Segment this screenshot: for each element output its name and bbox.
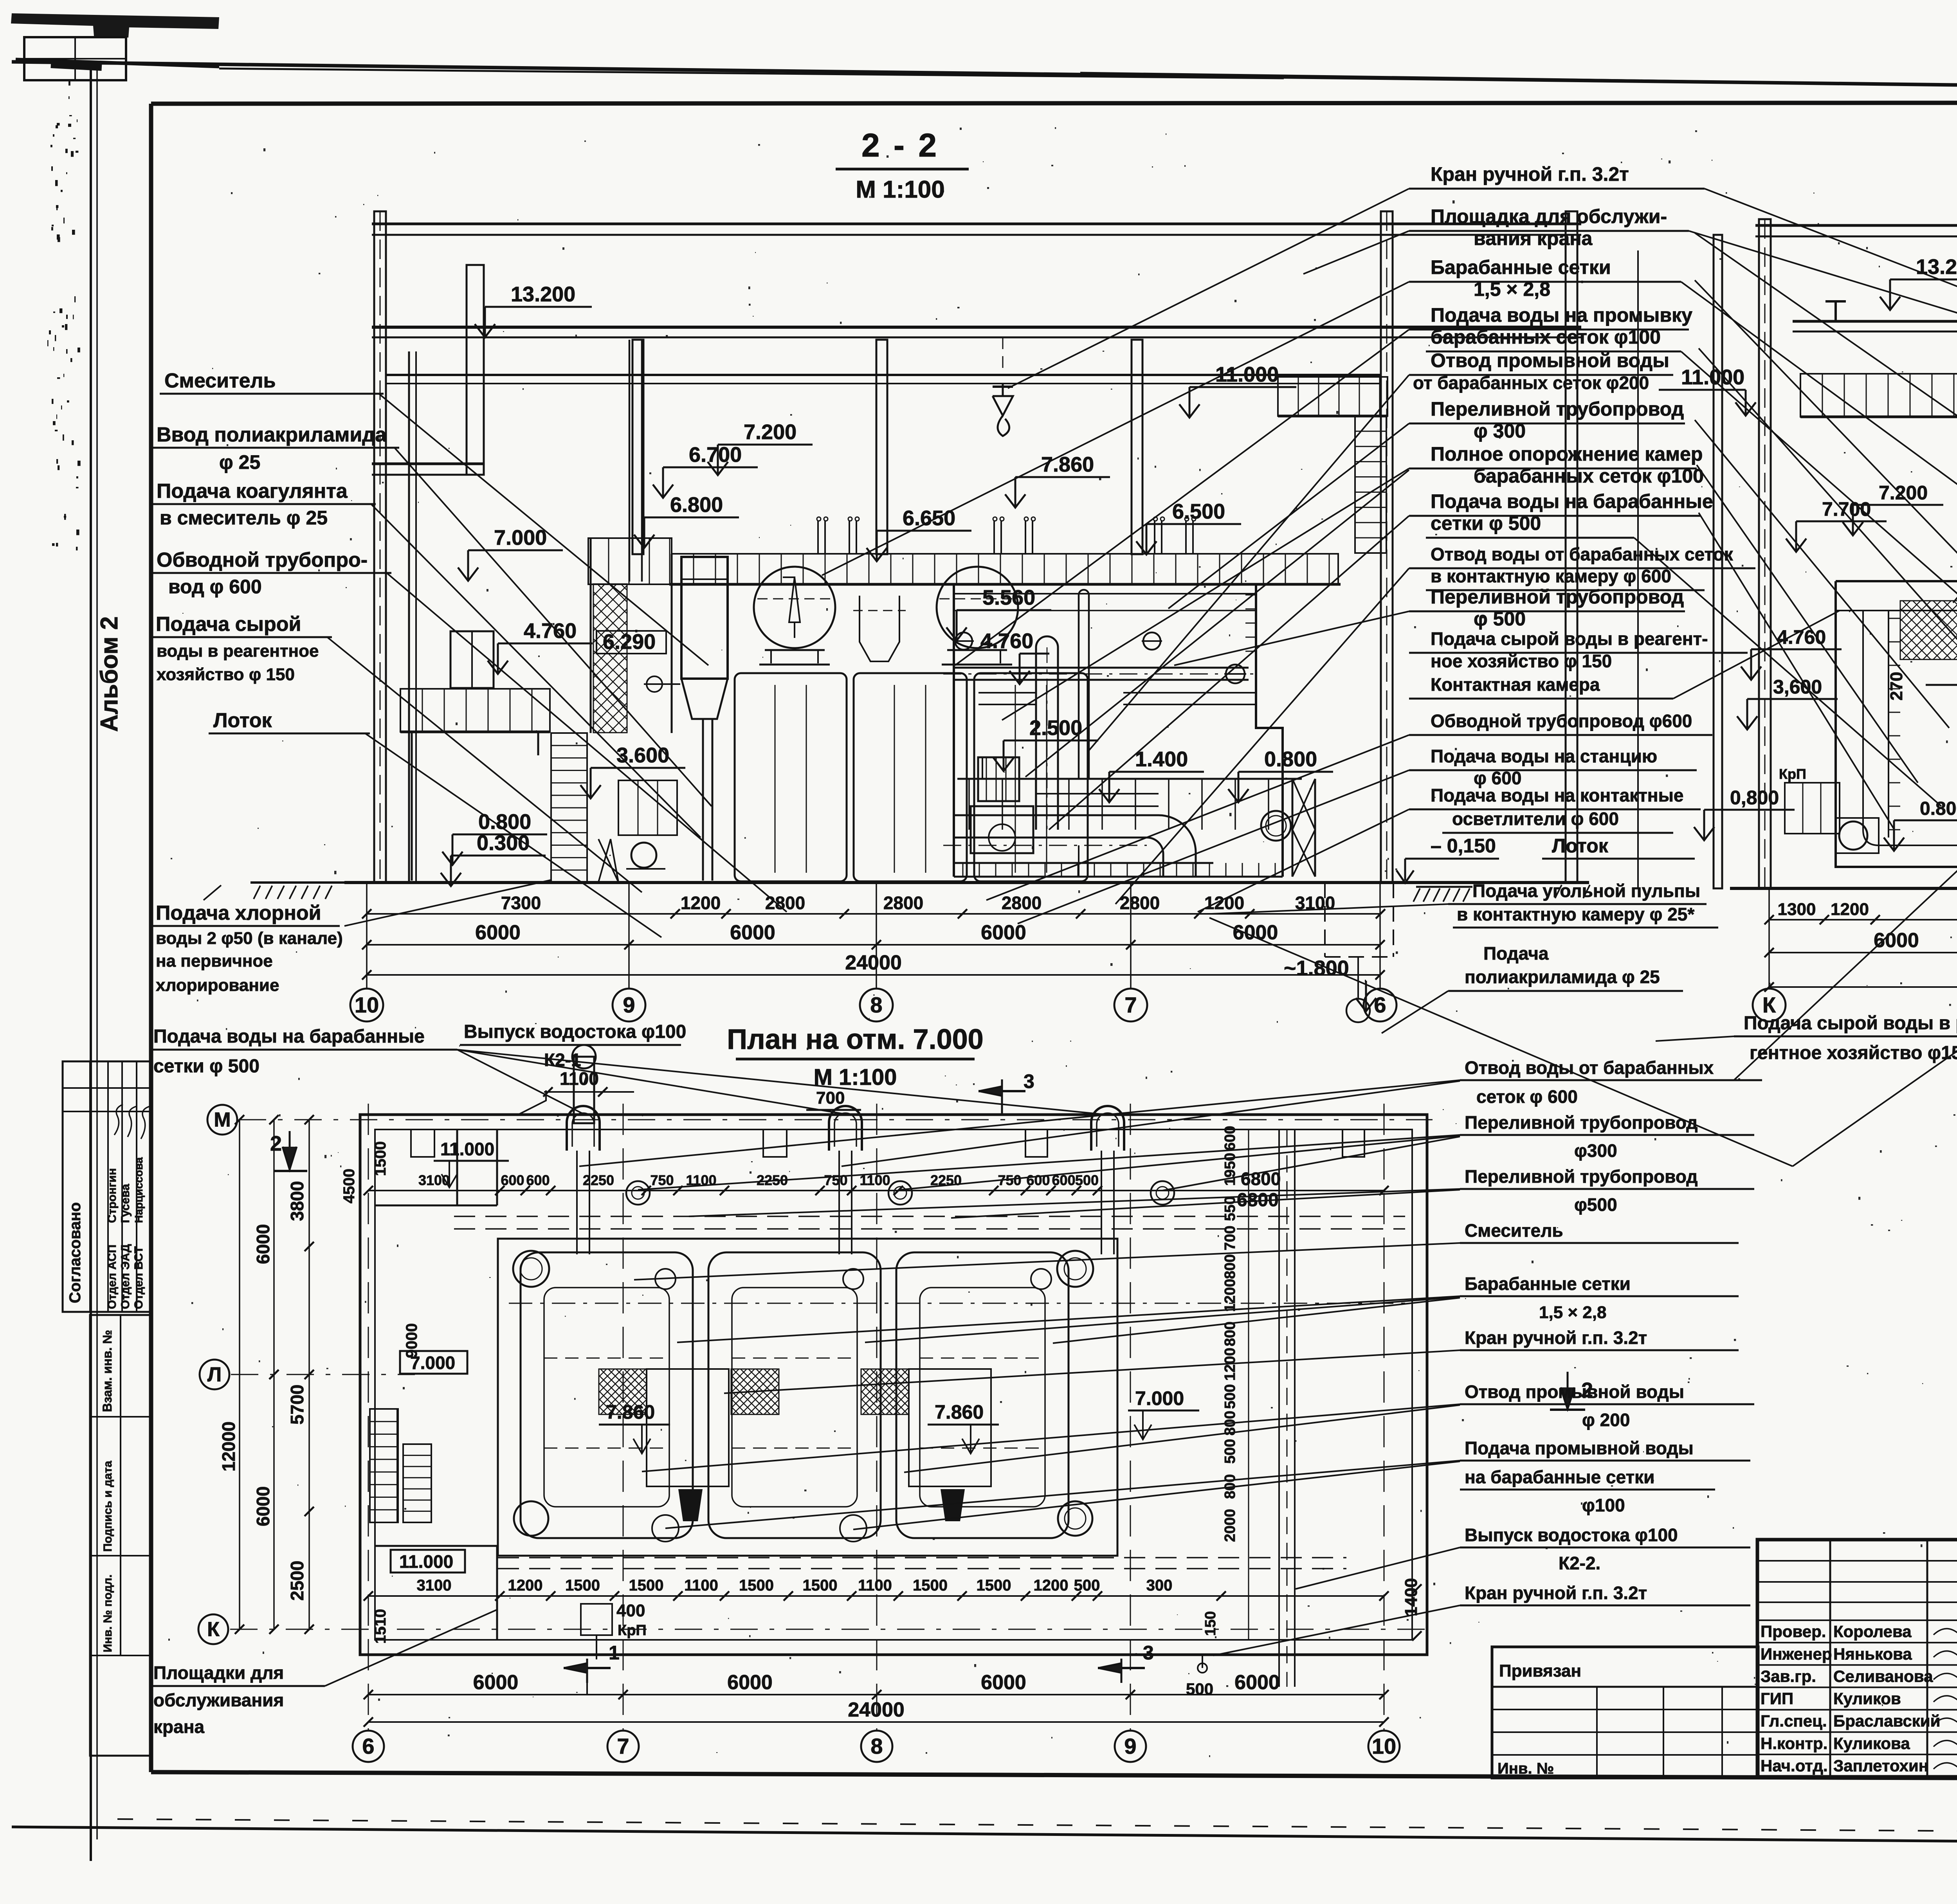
svg-text:1400: 1400 [1402,1578,1421,1616]
plan bottom-right fitting [1198,1663,1207,1673]
svg-text:Переливной трубопровод: Переливной трубопровод [1465,1166,1698,1187]
svg-text:6000: 6000 [1234,1671,1280,1694]
svg-text:800: 800 [1222,1322,1238,1346]
svg-text:6000: 6000 [1874,929,1919,952]
svg-text:2 - 2: 2 - 2 [861,127,939,164]
pit at right going to -1.800 [1324,883,1326,957]
plan section mark 1 bottom [586,1659,588,1683]
left service platform on legs [400,689,550,732]
svg-text:Подпись и дата: Подпись и дата [101,1461,114,1552]
svg-text:4.760: 4.760 [1777,626,1826,648]
drum water level dash [757,598,832,600]
small ladder right side chamber [1245,594,1256,596]
plan right vertical pipe (drain K2-2) [1278,1129,1280,1687]
upper hatched stair flight 2-2 [593,584,627,733]
inner water hatch 3-3 [1900,601,1957,659]
svg-text:750: 750 [824,1172,847,1188]
sheet top scan border line [12,62,1957,92]
label K2-1 mark [517,1090,546,1115]
svg-text:Подача: Подача [1483,943,1549,964]
svg-text:800: 800 [1222,1254,1238,1279]
dimension rows section 2-2 [367,913,1380,915]
svg-text:Барабанные сетки: Барабанные сетки [1431,256,1611,278]
svg-text:ГИП: ГИП [1761,1690,1793,1708]
plan boxed level 7.000 [400,1351,467,1374]
svg-text:1500: 1500 [739,1577,774,1594]
svg-text:1500: 1500 [629,1577,664,1594]
svg-text:6000: 6000 [730,921,775,944]
svg-text:7.200: 7.200 [744,420,796,444]
svg-text:6000: 6000 [1233,921,1278,944]
left small pump 3-3 [1839,821,1867,850]
valve fitting at floor left [647,676,662,692]
svg-text:1,5 × 2,8: 1,5 × 2,8 [1474,278,1550,300]
svg-text:Подача воды на станцию: Подача воды на станцию [1431,746,1657,766]
svg-text:3,600: 3,600 [1773,676,1822,698]
drum screen right (2-2) [937,567,1018,648]
svg-text:6800: 6800 [1241,1169,1281,1189]
svg-text:Ввод полиакриламида: Ввод полиакриламида [157,423,387,446]
svg-text:Обводной трубопровод φ600: Обводной трубопровод φ600 [1431,711,1692,731]
svg-text:Селиванова: Селиванова [1833,1667,1933,1685]
section 3-3 crane girder [1793,320,1957,323]
svg-text:полиакриламида φ 25: полиакриламида φ 25 [1465,967,1660,987]
contact chamber walls 2-2 [953,584,955,877]
svg-text:Площадка для обслужи-: Площадка для обслужи- [1431,205,1667,227]
svg-text:Привязан: Привязан [1499,1661,1581,1681]
svg-text:Подача промывной воды: Подача промывной воды [1465,1438,1694,1458]
section 2-2 column axis 10 (left wall) [374,211,386,883]
svg-text:Отдел ЭАД: Отдел ЭАД [119,1244,132,1309]
plan pipe circles row inside top [626,1181,650,1205]
scan smudges left edge [47,79,81,550]
svg-text:Подача коагулянта: Подача коагулянта [157,480,348,503]
section 3-3 column K (left wall) [1759,219,1771,888]
svg-text:Взам. инв. №: Взам. инв. № [100,1330,114,1412]
column bubbles 2-2 [366,883,368,989]
svg-text:10: 10 [355,993,379,1017]
measuring scale left inside tank [1888,611,1889,838]
svg-text:Выпуск водостока φ100: Выпуск водостока φ100 [1465,1525,1678,1545]
ground hatch left end [250,881,345,884]
svg-text:7: 7 [617,1734,629,1758]
svg-text:хлорирование: хлорирование [156,976,279,995]
plan section mark 2 right [1567,1372,1569,1409]
valve circle plain mid [1143,632,1161,650]
svg-text:6.700: 6.700 [689,443,742,467]
svg-text:8: 8 [870,993,882,1017]
svg-text:6000: 6000 [981,921,1026,944]
svg-text:1100: 1100 [858,1577,892,1594]
svg-text:150: 150 [1202,1611,1219,1636]
svg-text:Подача угольной пульпы: Подача угольной пульпы [1472,881,1700,901]
svg-text:7.000: 7.000 [494,526,547,549]
title block signature table columns [1829,1540,1831,1777]
svg-text:11.000: 11.000 [399,1551,453,1572]
hanging pipes above floor 2-2 [817,521,819,554]
svg-text:600: 600 [1026,1172,1050,1188]
svg-text:1: 1 [609,1642,620,1664]
svg-text:300: 300 [1146,1577,1173,1594]
plan tall pipe stub top-left (K2-1) [574,1057,594,1123]
svg-text:вод φ 600: вод φ 600 [168,576,262,598]
left margin table: Soglasovano block [63,1061,151,1312]
svg-text:7.860: 7.860 [1041,453,1094,476]
svg-text:Гусева: Гусева [119,1184,132,1223]
svg-text:600: 600 [1222,1126,1238,1151]
svg-text:3.600: 3.600 [616,744,669,767]
plan drum unit 3 [896,1252,1069,1538]
section 2-2 column axis 8 [876,340,887,554]
contact chamber tank 3-3 [1836,581,1957,867]
svg-text:7.860: 7.860 [606,1401,655,1423]
svg-text:воды 2 φ50 (в канале): воды 2 φ50 (в канале) [156,929,343,948]
svg-text:М: М [214,1109,231,1131]
svg-text:Подача воды на промывку: Подача воды на промывку [1431,304,1692,326]
svg-text:~1.800: ~1.800 [1284,957,1349,980]
svg-text:сетки φ 500: сетки φ 500 [1431,512,1541,534]
svg-text:1200: 1200 [1204,893,1244,913]
svg-text:8: 8 [870,1734,883,1758]
svg-text:φ 300: φ 300 [1474,420,1526,442]
plan section mark 3 bottom [1121,1659,1123,1683]
svg-text:барабанных сеток φ100: барабанных сеток φ100 [1431,326,1661,348]
extra leaders from bottom labels into 3-3 [1734,845,1957,1080]
ground line 3-3 [1730,887,1957,890]
svg-text:Стронгин: Стронгин [106,1168,119,1223]
svg-text:хозяйство φ 150: хозяйство φ 150 [157,665,295,684]
stairs lower flight 2-2 [551,733,587,883]
section 3-3 parapet wall left of axis K [1714,235,1722,888]
svg-text:2800: 2800 [883,893,923,913]
svg-text:2250: 2250 [583,1172,614,1188]
svg-text:Королева: Королева [1833,1622,1912,1641]
svg-text:Полное опорожнение камер: Полное опорожнение камер [1431,443,1703,465]
svg-text:Нач.отд.: Нач.отд. [1761,1756,1828,1775]
svg-text:1200: 1200 [681,893,721,913]
svg-text:600: 600 [501,1172,524,1188]
svg-text:Кран ручной г.п. 3.2т: Кран ручной г.п. 3.2т [1431,163,1629,185]
svg-text:Отвод воды от барабанных сеток: Отвод воды от барабанных сеток [1431,544,1734,564]
svg-text:К2-1: К2-1 [544,1050,581,1070]
svg-text:План на отм. 7.000: План на отм. 7.000 [727,1024,983,1055]
plan column bubbles 6..10 [353,1731,384,1762]
plan small top circles [655,1269,676,1289]
svg-text:Провер.: Провер. [1761,1622,1826,1641]
svg-text:6.290: 6.290 [603,630,656,654]
svg-text:Л: Л [207,1364,222,1386]
plan dark corner glyphs [678,1489,703,1521]
main pipe elbow down 2-2 [1033,815,1196,877]
plan omega pipe stubs on top wall [567,1106,600,1151]
svg-text:6.800: 6.800 [670,493,723,517]
svg-text:0.800: 0.800 [1264,748,1317,771]
svg-text:φ 500: φ 500 [1474,608,1526,630]
svg-text:Инв. № подл.: Инв. № подл. [101,1574,114,1652]
svg-text:1500: 1500 [565,1577,600,1594]
svg-text:Смеситель: Смеситель [164,369,276,392]
plan drum unit 1 [521,1252,693,1538]
svg-text:Отвод промывной воды: Отвод промывной воды [1431,349,1669,371]
svg-text:воды в реагентное: воды в реагентное [157,641,319,661]
plan drum screens hall outer boundary [498,1239,1117,1556]
svg-text:Отвод промывной воды: Отвод промывной воды [1465,1382,1684,1402]
svg-text:6.500: 6.500 [1172,500,1225,523]
signatures squiggles [114,1104,150,1139]
ground line 2-2 [344,881,1589,884]
svg-text:φ500: φ500 [1574,1194,1617,1215]
title block signature rows named [1757,1619,1957,1621]
svg-text:7.200: 7.200 [1879,482,1928,504]
trough between drums [860,596,899,661]
svg-text:Переливной трубопровод: Переливной трубопровод [1431,398,1684,420]
svg-text:1,5 × 2,8: 1,5 × 2,8 [1539,1303,1606,1322]
section 2-2 column axis 9 [633,340,643,554]
plan drum unit 2 [708,1252,881,1538]
svg-text:осветлители φ 600: осветлители φ 600 [1452,809,1619,829]
svg-text:Гл.спец.: Гл.спец. [1761,1712,1827,1730]
svg-text:6000: 6000 [253,1486,273,1526]
svg-text:φ 200: φ 200 [1582,1410,1630,1430]
svg-text:на первичное: на первичное [156,951,273,971]
svg-text:Кран ручной г.п. 3.2т: Кран ручной г.п. 3.2т [1465,1583,1647,1603]
svg-text:1.400: 1.400 [1135,748,1188,771]
section 2-2 roof slab [372,223,1581,225]
svg-text:Отдел АСП: Отдел АСП [106,1245,119,1309]
svg-text:Барабанные сетки: Барабанные сетки [1465,1274,1631,1294]
svg-text:6000: 6000 [473,1671,519,1694]
dashed centerline vertical riser [1047,647,1048,830]
svg-text:3100: 3100 [418,1172,450,1188]
I-beam symbols on girder [1825,300,1846,303]
wall under landing [590,538,592,733]
scan black streak top-left [11,13,219,38]
svg-text:1200: 1200 [1034,1577,1069,1594]
valve circle 4.760 mid [955,632,972,650]
handrail over pump area 2-2 [957,778,1302,780]
svg-text:1500: 1500 [977,1577,1011,1594]
plan riser pipes from stubs to units [576,1151,578,1254]
sheet outer bottom smudge + line [117,1819,1957,1835]
floor landing 7.000 left [588,538,672,584]
svg-text:Инженер: Инженер [1761,1645,1832,1663]
svg-text:ное хозяйство φ 150: ное хозяйство φ 150 [1431,651,1612,671]
drum screen left (2-2) [754,567,835,648]
svg-text:500: 500 [1222,1439,1238,1464]
lower pipe run 2-2 [954,814,1033,816]
svg-text:10: 10 [1372,1734,1396,1758]
service platform at 11.000 (2-2) [1278,377,1388,416]
svg-text:500: 500 [1075,1172,1099,1188]
svg-text:6000: 6000 [981,1671,1026,1694]
section 2-2 column axis 6 [1381,211,1393,883]
svg-text:2800: 2800 [1120,893,1160,913]
plan corner circles big [513,1251,549,1287]
section 2-2 crane girder beam [372,326,1581,329]
sheet outer left border double line [90,63,92,1861]
svg-text:Переливной трубопровод: Переливной трубопровод [1465,1112,1698,1133]
svg-text:24000: 24000 [845,951,902,974]
dimension rows section 3-3 [1769,919,1957,920]
svg-text:1500: 1500 [803,1577,838,1594]
svg-text:1200: 1200 [508,1577,543,1594]
svg-text:2: 2 [270,1132,282,1155]
plan grid line M [239,1119,1433,1120]
ladder below platform [1355,416,1386,553]
svg-text:1200: 1200 [1222,1279,1238,1312]
plan 6000 row [368,1694,1384,1695]
svg-text:Нянькова: Нянькова [1833,1645,1912,1663]
svg-text:гентное хозяйство φ150: гентное хозяйство φ150 [1750,1043,1957,1063]
svg-text:3100: 3100 [417,1577,452,1594]
svg-text:Смеситель: Смеситель [1465,1220,1563,1241]
svg-text:9000: 9000 [403,1323,420,1358]
svg-text:6000: 6000 [253,1224,273,1264]
svg-text:φ300: φ300 [1574,1140,1617,1161]
plan grid bubbles M L K [207,1105,237,1135]
riser pipe with arc (2-2) [1035,647,1037,830]
svg-text:Подача воды на барабанные: Подача воды на барабанные [153,1026,425,1047]
extra pipe lines contact chamber 2-2 [954,610,1256,611]
plan grid line K [230,1629,1433,1630]
svg-text:Заплетохин: Заплетохин [1833,1756,1928,1775]
pump machinery block 2-2 [978,757,1019,801]
inner drawing frame [151,103,1957,104]
plan central measure boxes [647,1369,729,1486]
svg-text:К2-2.: К2-2. [1559,1553,1600,1573]
svg-text:Обводной трубопро-: Обводной трубопро- [157,549,368,571]
svg-text:сеток φ 600: сеток φ 600 [1476,1086,1578,1107]
lower pump unit 2-2 [618,780,677,835]
svg-text:2000: 2000 [1222,1509,1238,1542]
svg-text:2800: 2800 [1002,893,1042,913]
plan grid line L [231,1374,415,1375]
svg-text:в контактную камеру φ 25*: в контактную камеру φ 25* [1457,904,1694,924]
svg-text:7.700: 7.700 [1822,498,1871,520]
svg-text:4500: 4500 [341,1169,358,1203]
section 2-2 far right column [1566,211,1577,883]
svg-text:1510: 1510 [372,1609,389,1644]
svg-text:Куликов: Куликов [1833,1690,1901,1708]
section 2-2 crane rail beam [386,374,1382,376]
chamber inner partitions [775,685,776,873]
svg-text:700: 700 [1222,1226,1238,1250]
svg-text:Подача сырой воды в реагент-: Подача сырой воды в реагент- [1431,629,1708,649]
plan 400 KrP mark [581,1604,612,1635]
svg-text:в смеситель φ 25: в смеситель φ 25 [160,507,328,529]
small grid box KrP 3-3 [1785,783,1840,834]
svg-text:6: 6 [1374,993,1386,1017]
svg-text:1300: 1300 [1778,900,1816,919]
dashed crane drop line [1002,337,1004,375]
svg-text:КрП: КрП [618,1622,647,1639]
svg-text:Согласовано: Согласовано [67,1202,84,1303]
svg-text:270: 270 [1887,672,1906,701]
plan bottom dimension row [368,1595,1384,1597]
plan section mark 3 top [1001,1079,1003,1114]
plan stair second [403,1444,431,1522]
plan interior wall left rooms [456,1129,458,1205]
svg-text:Отвод воды от барабанных: Отвод воды от барабанных [1465,1057,1714,1078]
svg-text:2500: 2500 [287,1561,307,1601]
plan outer walls [360,1115,1427,1655]
plan section mark 2 left top [289,1131,291,1170]
drum chambers below [735,673,847,881]
svg-text:Н.контр.: Н.контр. [1761,1734,1827,1753]
inner wall left bay 2-2 [408,351,410,883]
svg-text:6.650: 6.650 [903,506,955,530]
svg-text:Куликова: Куликова [1833,1734,1910,1753]
svg-text:Альбом 2: Альбом 2 [96,616,123,732]
svg-text:550: 550 [1222,1196,1238,1221]
plan dash-dot process line mid [509,1303,1409,1304]
left margin table: Vzam inv block [90,1315,151,1756]
svg-text:в контактную камеру φ 600: в контактную камеру φ 600 [1431,566,1671,586]
plan dashed pipelines horizontal [454,1216,1405,1217]
svg-text:Лоток: Лоток [213,709,272,732]
svg-text:обслуживания: обслуживания [153,1690,284,1710]
svg-text:барабанных сеток φ100: барабанных сеток φ100 [1474,465,1704,487]
title block outer frame [1757,1540,1957,1777]
brace frame right 2-2 [1292,779,1294,877]
svg-text:Инв. №: Инв. № [1497,1760,1554,1777]
mixer tank (smesitel) [681,557,728,679]
plan boxed level 11.000 [391,1550,465,1573]
ground hatch middle [1416,886,1472,888]
section 3-3 service platform [1800,374,1957,417]
svg-text:24000: 24000 [848,1699,905,1721]
column bubbles 3-3 [1768,888,1770,989]
svg-text:0.300: 0.300 [477,831,530,855]
plan top dimension row [368,1190,1384,1191]
svg-text:Площадки для: Площадки для [153,1663,284,1683]
svg-text:700: 700 [816,1088,845,1108]
section 2-2 side bay column [467,265,484,475]
svg-text:Отдел ВСТ: Отдел ВСТ [132,1246,145,1309]
svg-text:400: 400 [616,1601,645,1620]
svg-text:500: 500 [1074,1577,1100,1594]
svg-text:от барабанных сеток φ200: от барабанных сеток φ200 [1413,373,1649,393]
svg-text:КрП: КрП [1779,766,1806,782]
plan stair flight [370,1409,398,1522]
equipment floor slab 2-2 with hatch [672,554,1338,584]
svg-text:7.860: 7.860 [935,1401,984,1423]
svg-text:φ 25: φ 25 [219,451,260,473]
section 2-2 side bay roof beams [372,463,484,465]
svg-text:3800: 3800 [287,1181,307,1221]
tall guide vertical between sections [1637,250,1639,888]
thin overflow pipe [1078,595,1080,779]
svg-text:12000: 12000 [218,1421,239,1472]
svg-text:Подача воды на барабанные: Подача воды на барабанные [1431,490,1713,512]
svg-text:3: 3 [1024,1070,1034,1092]
svg-text:600: 600 [526,1172,550,1188]
plan hatched squares in units [599,1369,647,1414]
svg-text:7300: 7300 [501,893,541,913]
svg-text:11.000: 11.000 [440,1139,494,1159]
svg-text:Подача сырой: Подача сырой [156,613,301,636]
svg-text:13.200: 13.200 [1916,255,1957,279]
plan left dim verticals [273,1120,275,1629]
svg-text:5.560: 5.560 [982,586,1035,609]
svg-text:Браславский: Браславский [1833,1712,1940,1730]
svg-text:750: 750 [650,1172,674,1188]
ground hatch right end [1555,885,1562,898]
svg-text:Подача хлорной: Подача хлорной [156,902,321,924]
plan vertical grid lines [368,1104,369,1730]
grating verticals pump area 2-2 [962,863,964,877]
svg-text:Зав.гр.: Зав.гр. [1761,1667,1816,1685]
